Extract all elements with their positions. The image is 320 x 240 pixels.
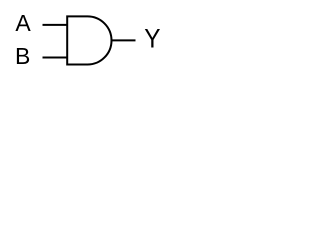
svg-text:A: A bbox=[15, 10, 31, 36]
svg-text:Y: Y bbox=[144, 25, 160, 54]
svg-text:B: B bbox=[15, 43, 30, 69]
